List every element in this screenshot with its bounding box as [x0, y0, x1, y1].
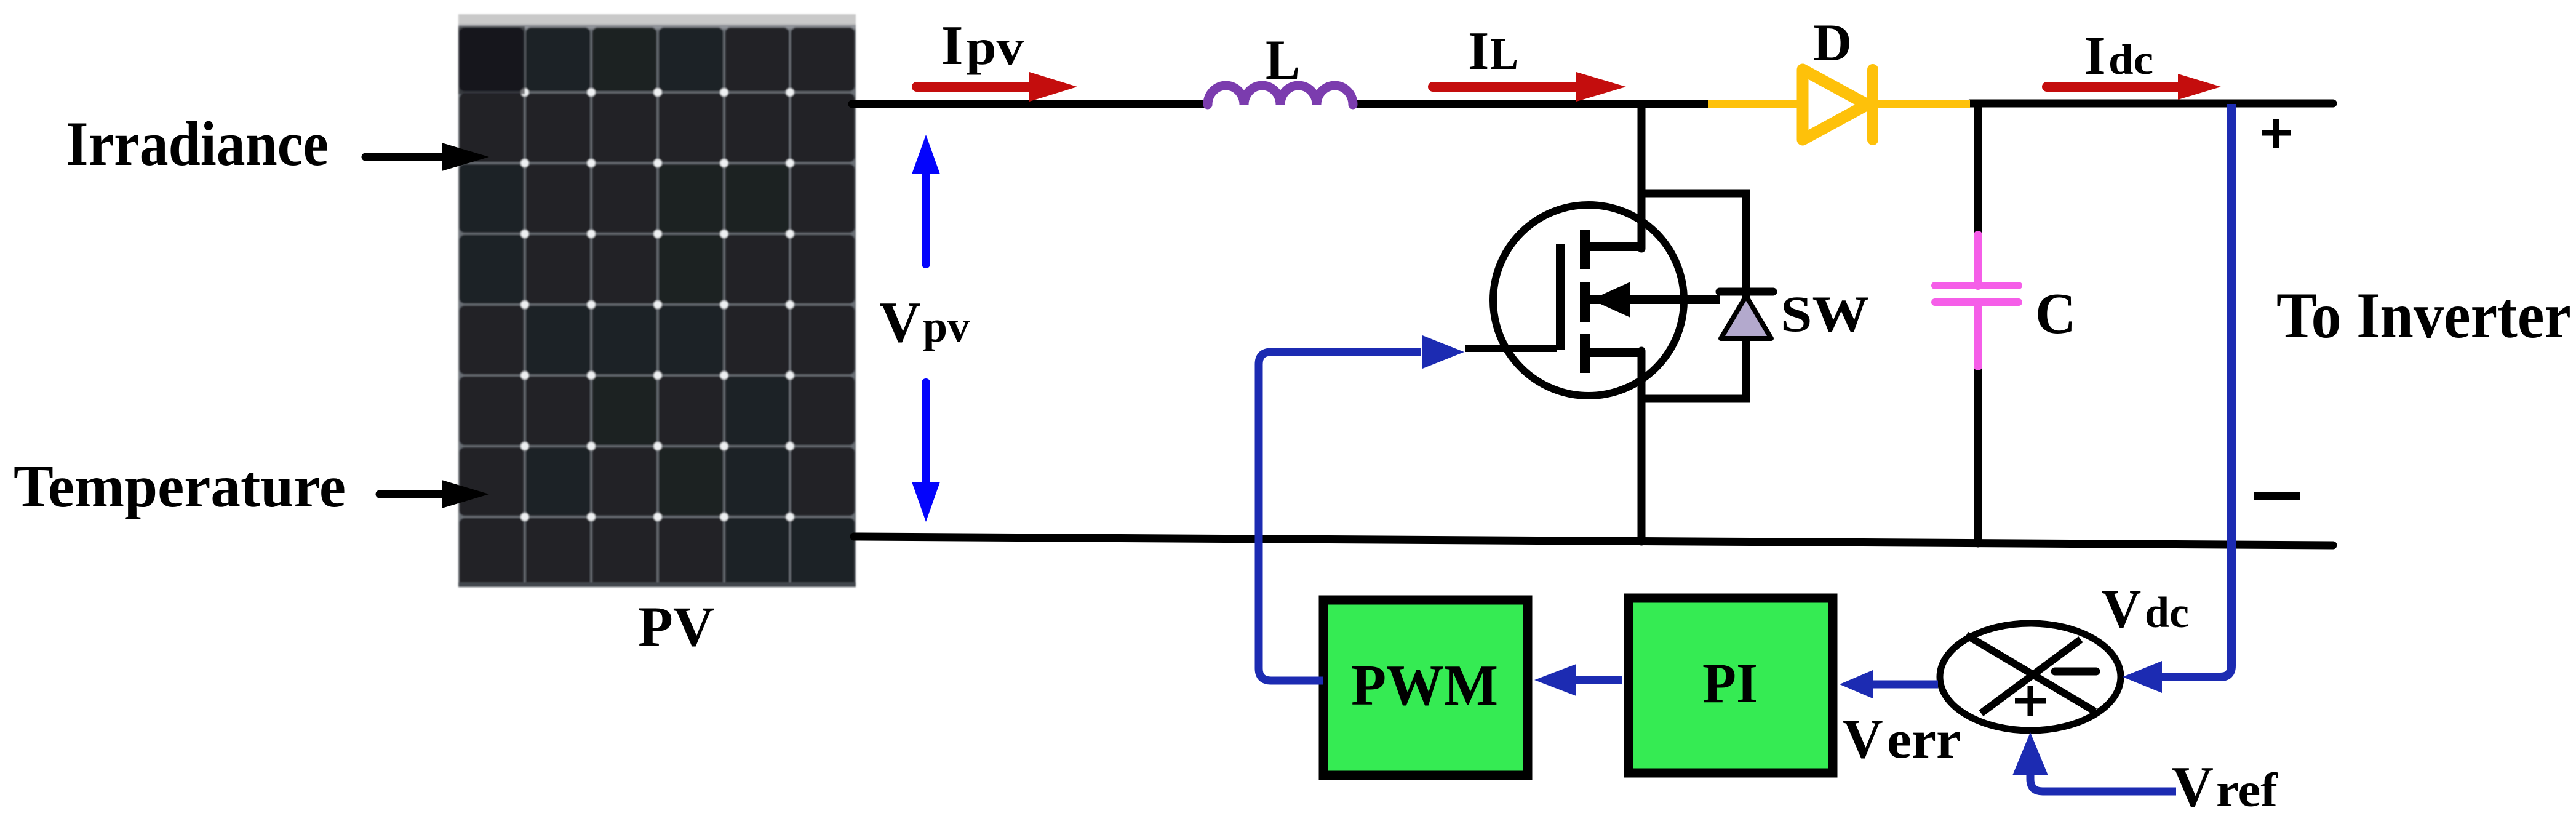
svg-text:L: L	[1490, 29, 1518, 79]
svg-text:pv: pv	[966, 18, 1024, 75]
svg-text:I: I	[2084, 26, 2106, 86]
svg-text:PI: PI	[1702, 652, 1758, 714]
svg-text:L: L	[1266, 28, 1300, 91]
svg-text:C: C	[2035, 282, 2076, 346]
svg-text:V: V	[2172, 755, 2214, 816]
svg-text:I: I	[941, 14, 963, 76]
svg-text:V: V	[1843, 708, 1883, 770]
svg-text:Temperature: Temperature	[14, 454, 346, 519]
svg-text:To Inverter: To Inverter	[2276, 279, 2571, 351]
svg-text:ref: ref	[2216, 763, 2278, 816]
svg-text:PWM: PWM	[1351, 654, 1498, 718]
svg-text:D: D	[1813, 13, 1852, 72]
svg-text:V: V	[879, 290, 921, 354]
svg-text:err: err	[1887, 710, 1961, 770]
svg-text:dc: dc	[2108, 36, 2153, 83]
svg-text:V: V	[2102, 579, 2141, 639]
svg-text:dc: dc	[2145, 589, 2189, 637]
svg-text:pv: pv	[923, 302, 970, 351]
svg-text:SW: SW	[1780, 286, 1869, 342]
svg-text:Irradiance: Irradiance	[66, 109, 329, 179]
svg-text:I: I	[1468, 22, 1489, 81]
svg-text:PV: PV	[638, 595, 714, 658]
